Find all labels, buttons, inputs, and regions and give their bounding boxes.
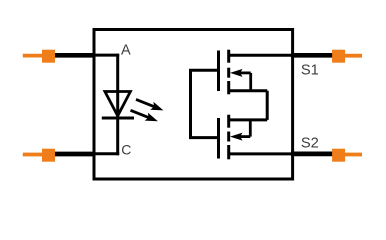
svg-text:S1: S1 xyxy=(301,62,319,78)
terminal pad P2 xyxy=(23,149,55,162)
LED D1 xyxy=(102,92,134,119)
terminal pad P4 xyxy=(332,149,362,162)
wire anode inner xyxy=(94,54,119,57)
terminal lead anode (outer) xyxy=(47,53,96,58)
body arrow Q1 xyxy=(240,72,251,75)
wire source Q2 xyxy=(229,118,268,121)
package outline xyxy=(94,30,293,180)
svg-text:C: C xyxy=(121,142,131,158)
light arrow 2 xyxy=(129,106,160,125)
light arrow 1 xyxy=(134,95,165,114)
transistor Q2 (bottom MOSFET) xyxy=(189,115,294,160)
terminal pad P1 xyxy=(23,50,55,63)
terminal pad P3 xyxy=(332,50,362,63)
wire gate lead Q2 xyxy=(189,136,220,139)
svg-text:A: A xyxy=(121,43,131,59)
terminal lead S2 (outer) xyxy=(291,152,333,157)
wire body-source Q1 xyxy=(249,73,252,91)
wire cathode inner xyxy=(94,152,119,155)
gate line Q1 xyxy=(217,51,220,92)
svg-text:S2: S2 xyxy=(301,135,319,151)
body arrow Q2 xyxy=(240,135,250,138)
wire body-source Q2 xyxy=(249,120,252,137)
wire LED vertical xyxy=(116,54,119,156)
wire source Q1 xyxy=(229,89,268,92)
wire drain Q1 to S1 xyxy=(230,54,295,57)
gate line Q2 xyxy=(217,118,220,159)
channel segments Q1 xyxy=(227,50,230,63)
wire gate lead Q1 xyxy=(189,69,220,72)
terminal lead S1 (outer) xyxy=(291,53,333,58)
wire gate bus xyxy=(189,70,192,137)
terminal lead cathode (outer) xyxy=(47,152,96,157)
wire source join xyxy=(266,91,269,120)
channel segments Q2 xyxy=(227,115,230,128)
transistor Q1 (top MOSFET) xyxy=(189,50,294,95)
wire drain Q2 to S2 xyxy=(230,152,295,155)
